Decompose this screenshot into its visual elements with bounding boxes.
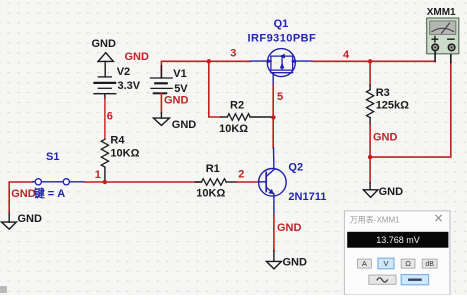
- node 4 junction: [343, 49, 372, 64]
- svg-text:GND: GND: [277, 222, 302, 234]
- wire Q2 emitter to ground: [273, 194, 275, 261]
- wire left of switch: [9, 182, 32, 222]
- wire V2 bottom lead: [104, 94, 106, 140]
- svg-text:万用表-XMM1: 万用表-XMM1: [350, 214, 400, 224]
- svg-text:3: 3: [230, 48, 236, 60]
- svg-text:125kΩ: 125kΩ: [376, 100, 409, 112]
- svg-text:10KΩ: 10KΩ: [219, 123, 248, 135]
- wire V1 to node 3 (top rail): [161, 61, 250, 77]
- svg-text:S1: S1: [46, 151, 59, 163]
- svg-text:GND: GND: [379, 186, 404, 198]
- resistor R2 10KOhm: [219, 100, 273, 136]
- node 3 junction: [207, 48, 237, 64]
- svg-text:键 = A: 键 = A: [33, 186, 66, 200]
- decorative: [0, 286, 7, 293]
- svg-text:GND: GND: [164, 94, 189, 106]
- node 1 junction: [95, 169, 107, 184]
- svg-text:6: 6: [107, 111, 113, 123]
- svg-text:10KΩ: 10KΩ: [110, 147, 139, 159]
- ground symbol below Q2: [266, 257, 307, 269]
- svg-text:GND: GND: [125, 51, 150, 63]
- wire XMM1 plus lead: [434, 51, 436, 62]
- wire R4 bottom to node 1: [104, 167, 106, 182]
- multimeter panel window: [344, 211, 450, 295]
- svg-text:5: 5: [277, 91, 283, 103]
- svg-text:13.768 mV: 13.768 mV: [376, 235, 420, 245]
- svg-text:R2: R2: [230, 100, 244, 112]
- ground symbol above V2 (arrow up): [92, 38, 117, 77]
- panel buttons row 1: [358, 258, 438, 269]
- transistor Q1 IRF9310PBF (p-MOSFET): [267, 49, 295, 77]
- ground symbol below R3: [363, 186, 403, 198]
- switch S1: [33, 151, 85, 200]
- wire Q1 gate down to node 5 and Q2 collector: [272, 73, 275, 170]
- svg-text:GND: GND: [283, 257, 308, 269]
- svg-text:V2: V2: [117, 66, 130, 78]
- panel buttons row 2: [369, 275, 429, 285]
- svg-text:GND: GND: [92, 38, 117, 50]
- node 2 label: [238, 169, 244, 181]
- svg-text:Q1: Q1: [274, 18, 289, 30]
- net label GND (red, at switch): [11, 188, 36, 200]
- resistor R3 125kOhm: [367, 87, 410, 125]
- net label GND (red, at Q2 emitter): [277, 222, 302, 234]
- wire node4 down to R3: [369, 61, 371, 89]
- svg-text:Ω: Ω: [405, 259, 411, 268]
- svg-text:XMM1: XMM1: [427, 7, 456, 18]
- battery V2 3.3V: [94, 66, 141, 94]
- net label GND (red, V1 bottom): [164, 94, 189, 106]
- ground symbol below V1: [154, 118, 197, 131]
- svg-text:2: 2: [238, 169, 244, 181]
- svg-text:V1: V1: [173, 68, 186, 80]
- resistor R4 10KOhm: [101, 135, 139, 168]
- svg-text:R3: R3: [376, 87, 390, 99]
- wire R3 bottom / XMM1 minus lead: [368, 51, 451, 190]
- net label GND (red, near V2 top): [125, 51, 150, 63]
- wire V1 bottom to ground: [160, 93, 162, 118]
- svg-text:5V: 5V: [174, 83, 188, 95]
- svg-text:2N1711: 2N1711: [288, 191, 326, 203]
- wire switch to node1 to R1: [84, 181, 201, 183]
- svg-text:GND: GND: [172, 119, 197, 131]
- wire Q1 right to node 4: [295, 60, 435, 62]
- svg-text:GND: GND: [373, 131, 398, 143]
- svg-text:GND: GND: [18, 213, 43, 225]
- svg-text:GND: GND: [11, 188, 36, 200]
- svg-text:dB: dB: [425, 261, 434, 268]
- svg-text:10KΩ: 10KΩ: [196, 188, 225, 200]
- svg-text:4: 4: [343, 49, 350, 61]
- node 6 label: [107, 111, 113, 123]
- svg-text:IRF9310PBF: IRF9310PBF: [248, 33, 317, 45]
- svg-text:R1: R1: [206, 163, 220, 175]
- wire R1 to Q2 base: [237, 181, 259, 183]
- svg-text:A: A: [362, 259, 367, 268]
- svg-text:1: 1: [95, 169, 101, 181]
- svg-text:3.3V: 3.3V: [118, 80, 141, 92]
- resistor R1 10KOhm: [195, 163, 236, 199]
- op Q1 labels: [248, 18, 317, 44]
- battery V1 5V: [150, 66, 188, 95]
- instrument XMM1 icon: [427, 7, 459, 54]
- net label GND (red, R3 bottom): [373, 131, 398, 143]
- wire node3 down to R2: [209, 61, 221, 117]
- transistor Q2 2N1711: [259, 162, 327, 204]
- svg-text:V: V: [383, 259, 388, 268]
- ground symbol bottom-left: [2, 213, 42, 229]
- svg-text:Q2: Q2: [288, 162, 303, 174]
- svg-text:R4: R4: [110, 135, 125, 147]
- node 5 junction: [271, 91, 283, 119]
- wire blue into Q1 left: [250, 60, 267, 62]
